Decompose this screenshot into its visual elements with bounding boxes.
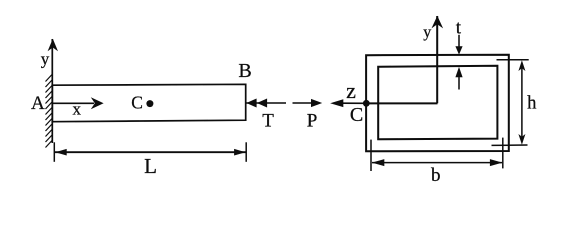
svg-text:A: A — [31, 93, 45, 114]
svg-text:L: L — [144, 154, 157, 178]
svg-text:b: b — [431, 165, 441, 186]
svg-text:y: y — [423, 24, 431, 41]
svg-text:y: y — [41, 50, 50, 69]
svg-text:T: T — [262, 110, 274, 131]
svg-text:z: z — [346, 78, 356, 103]
svg-text:P: P — [307, 110, 318, 131]
svg-text:h: h — [527, 94, 536, 114]
svg-text:x: x — [73, 99, 82, 118]
svg-text:C: C — [350, 104, 363, 126]
svg-text:B: B — [238, 60, 251, 82]
svg-text:C: C — [131, 93, 143, 113]
svg-text:t: t — [456, 17, 462, 38]
